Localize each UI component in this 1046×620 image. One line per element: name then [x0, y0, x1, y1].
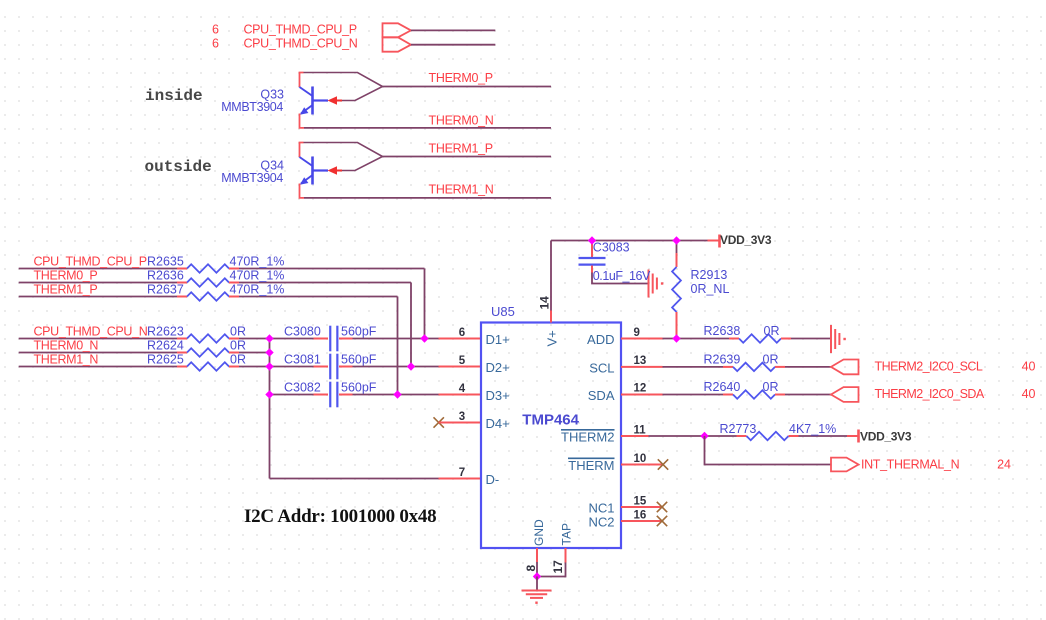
svg-text:7: 7: [459, 467, 465, 479]
svg-text:THERM0_N: THERM0_N: [429, 114, 494, 128]
svg-text:6: 6: [459, 327, 465, 339]
svg-text:outside: outside: [145, 158, 212, 176]
svg-text:6: 6: [212, 23, 219, 37]
svg-text:V+: V+: [545, 330, 560, 346]
svg-text:R2773: R2773: [720, 422, 757, 436]
svg-text:8: 8: [524, 565, 538, 572]
svg-text:THERM1_N: THERM1_N: [429, 183, 494, 197]
svg-text:0R: 0R: [764, 324, 780, 338]
svg-text:R2639: R2639: [704, 352, 741, 366]
svg-text:R2635: R2635: [147, 255, 184, 269]
svg-text:C3082: C3082: [284, 381, 321, 395]
svg-text:THERM0_P: THERM0_P: [429, 71, 493, 85]
svg-text:40: 40: [1022, 359, 1036, 373]
svg-text:R2624: R2624: [147, 339, 184, 353]
svg-text:CPU_THMD_CPU_N: CPU_THMD_CPU_N: [34, 325, 148, 339]
svg-text:R2636: R2636: [147, 269, 184, 283]
svg-text:C3083: C3083: [593, 241, 630, 255]
svg-text:0R_NL: 0R_NL: [691, 282, 730, 296]
svg-text:NC1: NC1: [588, 501, 614, 516]
svg-text:inside: inside: [145, 87, 203, 105]
svg-text:0R: 0R: [230, 339, 246, 353]
svg-text:SCL: SCL: [589, 360, 614, 375]
svg-text:24: 24: [997, 458, 1011, 472]
svg-text:I2C Addr: 1001000 0x48: I2C Addr: 1001000 0x48: [244, 506, 436, 527]
svg-text:GND: GND: [532, 519, 546, 546]
svg-text:R2625: R2625: [147, 353, 184, 367]
svg-text:R2638: R2638: [704, 324, 741, 338]
svg-text:4: 4: [459, 383, 466, 395]
svg-text:R2623: R2623: [147, 325, 184, 339]
svg-text:THERM1_P: THERM1_P: [34, 283, 98, 297]
svg-text:5: 5: [459, 355, 466, 367]
svg-text:470R_1%: 470R_1%: [230, 269, 285, 283]
svg-text:MMBT3904: MMBT3904: [221, 171, 283, 185]
svg-text:C3081: C3081: [284, 353, 321, 367]
svg-text:0R: 0R: [763, 352, 779, 366]
svg-text:VDD_3V3: VDD_3V3: [860, 430, 912, 444]
svg-text:0.1uF_16V: 0.1uF_16V: [593, 269, 651, 283]
svg-text:15: 15: [634, 496, 647, 508]
svg-text:THERM0_P: THERM0_P: [34, 269, 98, 283]
svg-text:560pF: 560pF: [341, 325, 377, 339]
svg-text:NC2: NC2: [588, 515, 614, 530]
svg-text:14: 14: [538, 296, 552, 310]
svg-text:CPU_THMD_CPU_N: CPU_THMD_CPU_N: [244, 37, 358, 51]
svg-text:THERM1_P: THERM1_P: [429, 142, 493, 156]
svg-text:4K7_1%: 4K7_1%: [789, 422, 836, 436]
svg-text:VDD_3V3: VDD_3V3: [720, 233, 772, 247]
svg-text:11: 11: [634, 425, 647, 437]
svg-text:R2637: R2637: [147, 283, 184, 297]
svg-text:13: 13: [634, 355, 647, 367]
svg-text:D-: D-: [486, 472, 500, 487]
svg-text:THERM0_N: THERM0_N: [34, 339, 99, 353]
svg-text:TMP464: TMP464: [522, 412, 579, 429]
svg-text:ADD: ADD: [587, 332, 614, 347]
svg-text:R2913: R2913: [691, 268, 728, 282]
svg-text:THERM2_I2C0_SDA: THERM2_I2C0_SDA: [875, 387, 985, 401]
svg-text:560pF: 560pF: [341, 381, 377, 395]
svg-text:D1+: D1+: [486, 332, 510, 347]
svg-text:CPU_THMD_CPU_P: CPU_THMD_CPU_P: [34, 255, 147, 269]
svg-text:17: 17: [551, 560, 565, 574]
svg-text:THERM1_N: THERM1_N: [34, 353, 99, 367]
svg-text:470R_1%: 470R_1%: [230, 255, 285, 269]
svg-text:9: 9: [634, 327, 640, 339]
svg-text:560pF: 560pF: [341, 353, 377, 367]
svg-text:R2640: R2640: [704, 380, 741, 394]
svg-text:U85: U85: [491, 304, 515, 319]
svg-text:C3080: C3080: [284, 325, 321, 339]
svg-text:CPU_THMD_CPU_P: CPU_THMD_CPU_P: [244, 23, 357, 37]
svg-text:D4+: D4+: [486, 416, 510, 431]
svg-text:16: 16: [634, 510, 647, 522]
svg-text:SDA: SDA: [588, 388, 615, 403]
svg-text:3: 3: [459, 411, 465, 423]
svg-text:0R: 0R: [763, 380, 779, 394]
svg-text:12: 12: [634, 383, 647, 395]
svg-text:D3+: D3+: [486, 388, 510, 403]
svg-text:MMBT3904: MMBT3904: [221, 100, 283, 114]
svg-text:0R: 0R: [230, 353, 246, 367]
svg-text:40: 40: [1022, 387, 1036, 401]
svg-text:470R_1%: 470R_1%: [230, 283, 285, 297]
svg-text:D2+: D2+: [486, 360, 510, 375]
svg-text:0R: 0R: [230, 325, 246, 339]
svg-text:THERM: THERM: [568, 458, 614, 473]
svg-text:INT_THERMAL_N: INT_THERMAL_N: [861, 458, 960, 472]
svg-text:10: 10: [634, 453, 647, 465]
svg-text:THERM2: THERM2: [561, 430, 614, 445]
svg-text:THERM2_I2C0_SCL: THERM2_I2C0_SCL: [875, 359, 983, 373]
svg-text:6: 6: [212, 37, 219, 51]
svg-text:TAP: TAP: [560, 523, 574, 545]
